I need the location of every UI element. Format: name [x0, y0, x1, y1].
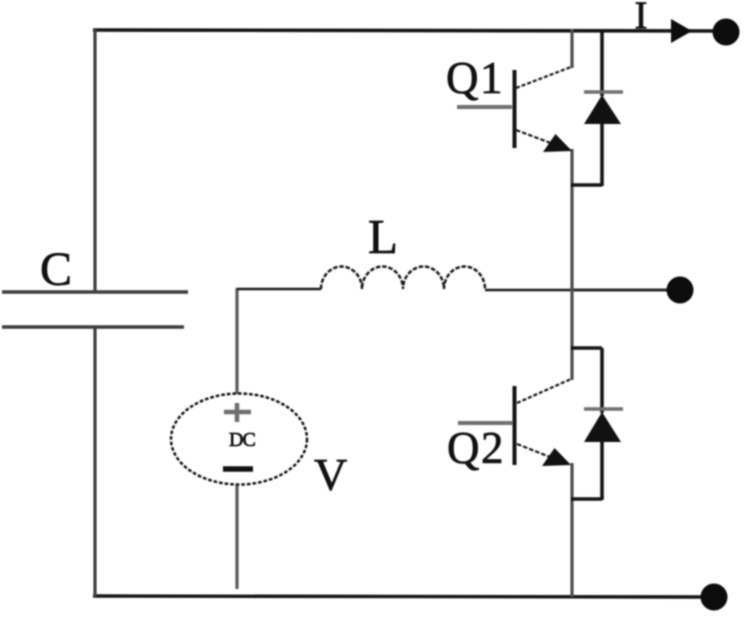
- svg-text:L: L: [368, 209, 398, 264]
- svg-text:Q2: Q2: [447, 423, 505, 473]
- svg-text:DC: DC: [229, 429, 255, 451]
- svg-text:Q1: Q1: [446, 53, 504, 103]
- svg-text:V: V: [314, 449, 347, 500]
- svg-text:I: I: [635, 0, 648, 37]
- svg-text:C: C: [40, 243, 72, 296]
